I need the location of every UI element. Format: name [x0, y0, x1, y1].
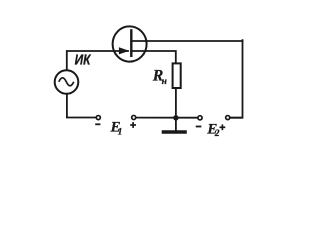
label minus of E1 — [95, 123, 100, 125]
label plus of E1 — [130, 122, 136, 128]
junction dot — [173, 115, 178, 120]
svg-text:ИК: ИК — [75, 53, 92, 69]
terminal (E2 minus) — [198, 116, 202, 120]
terminal (E2 plus) — [226, 116, 230, 120]
oscillator source ИК (circle) — [55, 70, 79, 94]
ground — [164, 118, 186, 132]
wire: collector lower branch to resistor top — [131, 51, 176, 64]
svg-text:н: н — [162, 77, 167, 87]
wire: source bottom lead — [67, 94, 96, 118]
wire: source top lead to transistor emitter — [67, 51, 128, 70]
svg-text:2: 2 — [214, 129, 220, 139]
label E2 — [206, 120, 220, 138]
transistor base bar — [130, 29, 132, 57]
wire: right rail down to E2 plus terminal — [230, 40, 242, 118]
transistor envelope — [113, 26, 147, 61]
wire: resistor bottom lead to junction — [175, 88, 177, 117]
label plus of E2 — [220, 124, 226, 130]
label Rн — [152, 68, 167, 87]
svg-text:1: 1 — [118, 127, 123, 137]
emitter arrow — [119, 47, 129, 54]
sine symbol inside source — [59, 78, 74, 86]
wire: E2 plus terminal to right rail — [230, 117, 242, 119]
wire: bottom middle (E1 plus terminal to E2 minus terminal) — [136, 117, 197, 119]
label minus of E2 — [196, 126, 202, 128]
label E1 — [110, 119, 123, 138]
wire: collector top rail — [131, 40, 242, 42]
terminal (E1 plus) — [132, 115, 136, 119]
resistor Rн body — [173, 63, 181, 88]
terminal (E1 minus) — [96, 116, 100, 120]
